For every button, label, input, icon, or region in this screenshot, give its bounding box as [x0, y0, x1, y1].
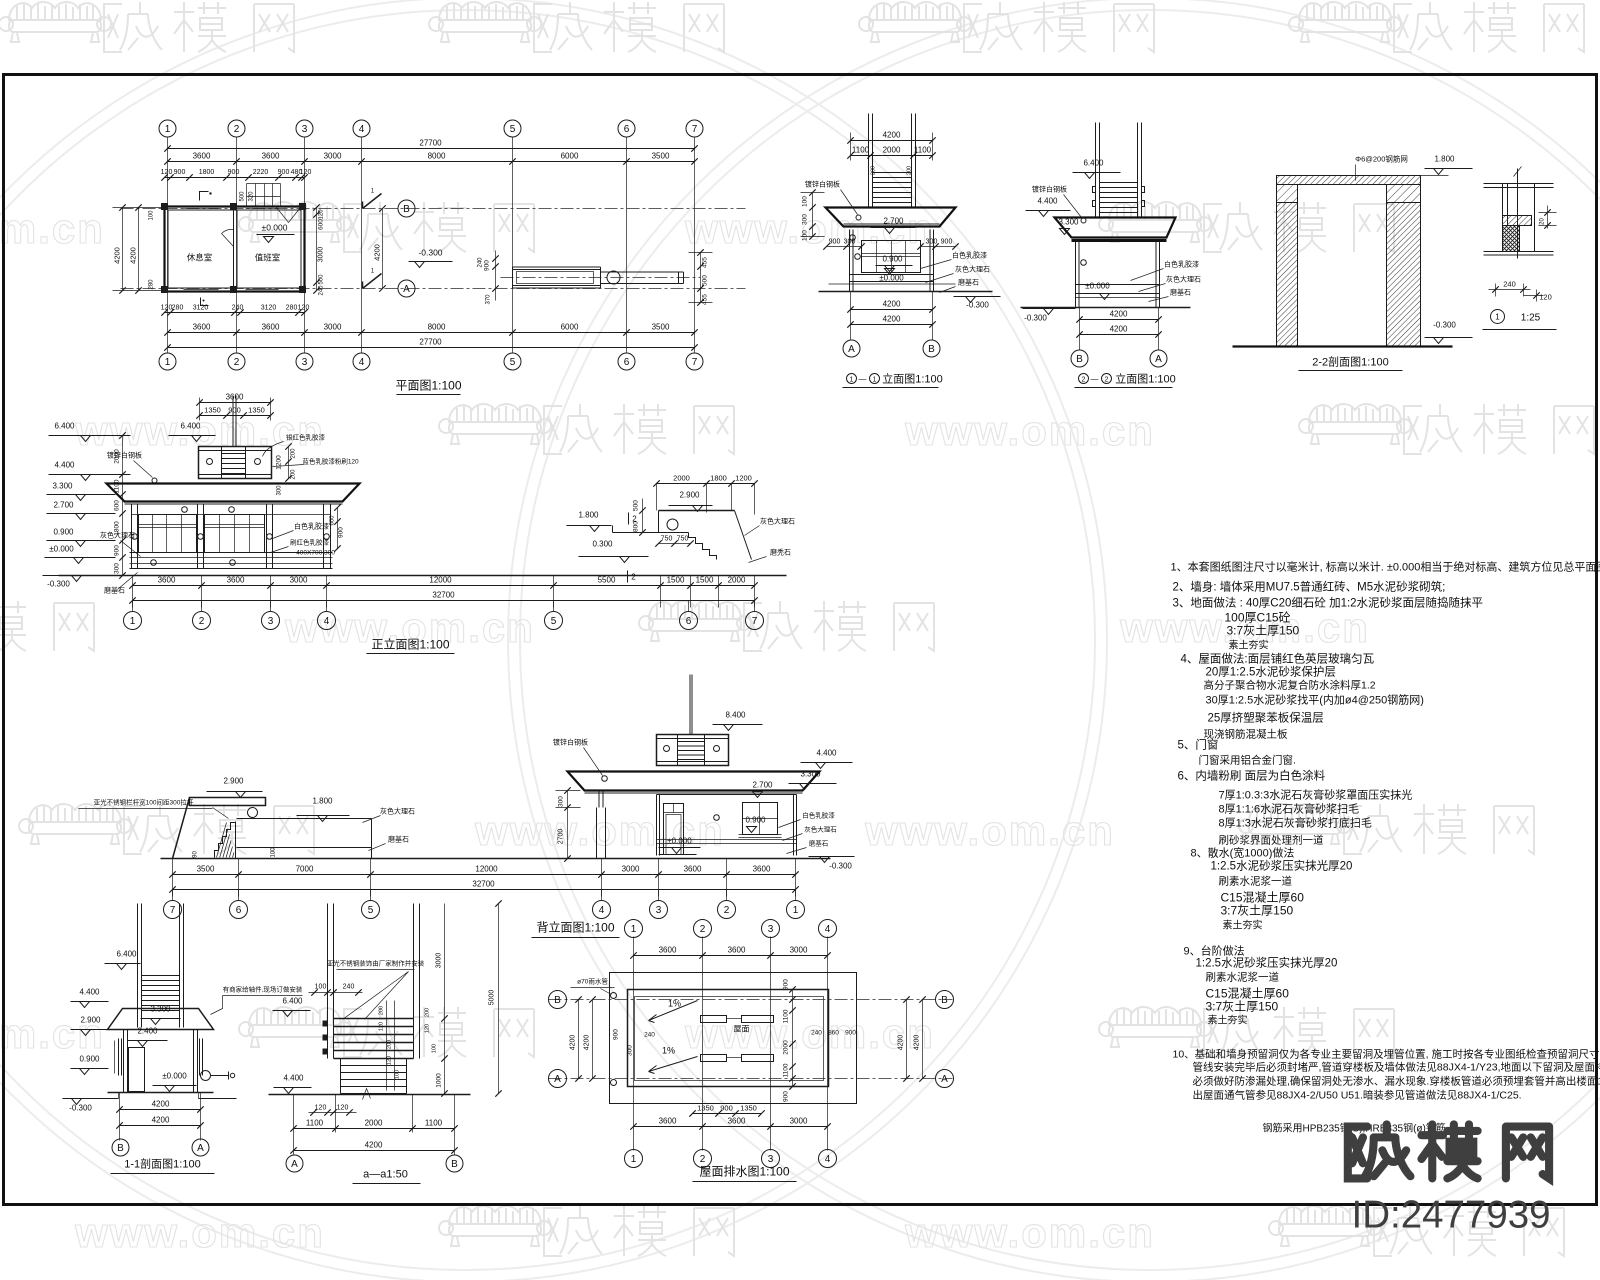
svg-text:1: 1 — [165, 124, 171, 135]
svg-text:白色乳胶漆: 白色乳胶漆 — [952, 251, 987, 260]
svg-text:2.900: 2.900 — [679, 491, 700, 500]
svg-text:3000: 3000 — [324, 323, 342, 332]
svg-text:白色乳胶漆: 白色乳胶漆 — [1164, 260, 1199, 269]
svg-text:1: 1 — [631, 924, 637, 935]
g5 grid bubble A — [1150, 350, 1167, 367]
svg-text:4.400: 4.400 — [54, 461, 75, 470]
svg-text:0.900: 0.900 — [79, 1055, 100, 1064]
svg-text:1.800: 1.800 — [1434, 155, 1455, 164]
barrier centerline — [501, 277, 701, 279]
svg-text:90: 90 — [193, 851, 199, 858]
svg-text:A: A — [403, 284, 410, 295]
svg-text:高分子聚合物水泥复合防水涂料厚1.2: 高分子聚合物水泥复合防水涂料厚1.2 — [1204, 679, 1376, 692]
svg-text:600: 600 — [318, 219, 325, 230]
svg-text:6.400: 6.400 — [54, 422, 75, 431]
svg-text:280: 280 — [286, 305, 298, 312]
be left pillar — [598, 791, 600, 808]
svg-text:4200: 4200 — [898, 1035, 905, 1051]
svg-text:1000: 1000 — [436, 1073, 443, 1088]
svg-text:屋面: 屋面 — [734, 1025, 750, 1034]
floor plan 平面图 — [113, 120, 746, 395]
front elevation 正立面图 — [43, 393, 796, 654]
gd mini dims — [386, 1001, 388, 1091]
svg-text:±0.000: ±0.000 — [1085, 282, 1110, 291]
g5 canopy roof — [1055, 218, 1176, 238]
g4 window — [862, 241, 921, 273]
big dark watermark 欧模网 — [1348, 1124, 1549, 1178]
svg-text:3600: 3600 — [262, 152, 280, 161]
g5 dims 4200 — [1079, 308, 1081, 351]
svg-text:25厚挤塑聚苯板保温层: 25厚挤塑聚苯板保温层 — [1208, 711, 1324, 725]
svg-text:4200: 4200 — [373, 244, 382, 261]
svg-text:600: 600 — [330, 515, 336, 526]
gd dim 4200 — [294, 1150, 455, 1152]
gate elevation 2-2 — [1021, 123, 1202, 388]
svg-text:4.400: 4.400 — [283, 1074, 304, 1083]
svg-text:6: 6 — [686, 616, 692, 627]
svg-text:7: 7 — [752, 616, 758, 627]
svg-text:120: 120 — [425, 1024, 431, 1033]
svg-text:2: 2 — [700, 1154, 706, 1165]
svg-text:3000: 3000 — [790, 946, 808, 955]
svg-text:6.400: 6.400 — [116, 950, 137, 959]
g5 gate grille — [1100, 182, 1138, 184]
be slope slab left — [190, 798, 266, 806]
svg-text:www.om.cn: www.om.cn — [74, 1209, 325, 1256]
svg-text:200: 200 — [291, 469, 297, 480]
svg-text:280: 280 — [172, 305, 184, 312]
rp far right dim chains — [906, 1000, 908, 1079]
svg-text:3600: 3600 — [659, 1117, 677, 1126]
be level -0.300 — [809, 856, 855, 858]
svg-text:1500: 1500 — [696, 576, 714, 585]
svg-text:240: 240 — [232, 305, 244, 312]
rp inner face rect — [635, 997, 824, 1081]
section 2-2 剖面图 — [1233, 154, 1473, 371]
svg-text:4200: 4200 — [1110, 325, 1128, 334]
svg-text:出屋面通气管参见88JX4-2/U50 U51.暗装参见管道: 出屋面通气管参见88JX4-2/U50 U51.暗装参见管道做法见88JX4-1… — [1193, 1089, 1522, 1102]
svg-text:立面图1:100: 立面图1:100 — [1115, 372, 1176, 386]
svg-text:素土夯实: 素土夯实 — [1229, 639, 1269, 652]
svg-text:3600: 3600 — [262, 323, 280, 332]
g4 canopy roof — [826, 208, 956, 227]
svg-text:B: B — [554, 995, 561, 1006]
svg-text:4: 4 — [359, 124, 365, 135]
rp bottom small dims — [693, 1113, 762, 1115]
svg-text:3500: 3500 — [652, 323, 670, 332]
svg-text:860: 860 — [828, 1030, 839, 1037]
svg-text:455: 455 — [702, 294, 709, 305]
svg-text:1350: 1350 — [248, 406, 265, 415]
roof drainage plan 屋面排水图 — [549, 920, 954, 1182]
gd grid bubble B — [446, 1155, 463, 1172]
svg-text:3: 3 — [302, 124, 308, 135]
gate leaf detail a-a 1:50 — [269, 900, 502, 1183]
section cut marks — [363, 194, 382, 209]
plan door swing top right — [277, 208, 301, 223]
svg-text:-0.300: -0.300 — [1433, 321, 1456, 330]
rp left dim chains — [578, 1000, 580, 1079]
be bottom dims — [172, 859, 174, 897]
svg-text:2: 2 — [199, 616, 205, 627]
svg-text:900: 900 — [338, 527, 345, 538]
svg-text:1、本套图纸图注尺寸以毫米计, 标高以米计. ±0.000相: 1、本套图纸图注尺寸以毫米计, 标高以米计. ±0.000相当于绝对标高、建筑方… — [1171, 560, 1600, 574]
svg-text:8000: 8000 — [428, 152, 446, 161]
svg-text:1:25: 1:25 — [1521, 313, 1541, 324]
svg-text:亚光不锈钢装饰由厂家制作并安装: 亚光不锈钢装饰由厂家制作并安装 — [327, 959, 425, 968]
fe flag pole — [232, 396, 234, 447]
svg-text:5: 5 — [368, 905, 374, 916]
plan bottom detail dims — [165, 312, 305, 314]
svg-text:3000: 3000 — [790, 1117, 808, 1126]
g4 left vertical dims — [812, 193, 814, 237]
s11 side window frames — [118, 1039, 120, 1076]
svg-text:±0.000: ±0.000 — [162, 1072, 187, 1081]
svg-text:5500: 5500 — [598, 576, 616, 585]
plan bay dims bottom — [168, 332, 695, 334]
svg-text:a—a1:50: a—a1:50 — [363, 1169, 408, 1181]
svg-text:120: 120 — [298, 305, 310, 312]
g4 base lines — [850, 274, 934, 276]
svg-text:4200: 4200 — [914, 1035, 921, 1051]
svg-text:300: 300 — [802, 214, 809, 225]
fe ball ornament — [667, 519, 678, 530]
svg-text:1100: 1100 — [852, 146, 870, 155]
plan bay dims top — [168, 161, 695, 163]
fe dims 750 750 — [659, 543, 691, 545]
svg-text:4200: 4200 — [883, 300, 901, 309]
svg-text:4200: 4200 — [365, 1141, 383, 1150]
svg-text:100: 100 — [149, 210, 155, 221]
svg-text:±0.000: ±0.000 — [667, 837, 692, 846]
barrier left dims — [495, 251, 497, 301]
svg-text:亚光不锈钢栏杆宽100间距300拉杆: 亚光不锈钢栏杆宽100间距300拉杆 — [94, 798, 194, 807]
d1 top lines — [1484, 183, 1554, 185]
svg-text:1350: 1350 — [697, 1104, 714, 1113]
svg-text:灰色大理石: 灰色大理石 — [955, 265, 990, 274]
fe overall 32700 — [133, 600, 755, 602]
plan grid bubbles bottom — [159, 353, 176, 370]
be flag pole — [689, 675, 691, 735]
rp centerline B — [549, 999, 953, 1001]
svg-text:10、基础和墙身预留洞仅为各专业主要留洞及埋管位置, 施工时: 10、基础和墙身预留洞仅为各专业主要留洞及埋管位置, 施工时按各专业图纸检查预留… — [1173, 1048, 1600, 1061]
svg-text:3: 3 — [656, 905, 662, 916]
g5 title — [1079, 374, 1089, 384]
svg-text:300: 300 — [114, 563, 121, 574]
plan overall dim bottom — [168, 347, 695, 349]
svg-text:A: A — [848, 344, 855, 355]
svg-text:3600: 3600 — [193, 152, 211, 161]
be door — [664, 804, 684, 855]
svg-text:5000: 5000 — [489, 990, 496, 1006]
plan interior vertical dim 4200 — [382, 209, 384, 289]
svg-text:3.300: 3.300 — [1058, 218, 1079, 227]
svg-text:6: 6 — [236, 905, 242, 916]
svg-text:磨基石: 磨基石 — [104, 586, 125, 595]
svg-text:3: 3 — [768, 924, 774, 935]
g4 dims below 4200 — [850, 292, 852, 341]
g4 ground line — [819, 291, 993, 293]
svg-text:750: 750 — [661, 536, 673, 543]
svg-text:3000: 3000 — [622, 865, 640, 874]
svg-text:刷红色乳胶漆: 刷红色乳胶漆 — [290, 538, 330, 547]
svg-text:600: 600 — [114, 500, 121, 511]
s11 gate posts — [137, 904, 139, 1028]
plan overall dim 27700 top — [168, 148, 695, 150]
svg-text:B: B — [928, 344, 935, 355]
svg-text:C15混凝土厚60: C15混凝土厚60 — [1206, 986, 1290, 1001]
s11 grid bubble B — [112, 1139, 129, 1156]
svg-text:3600: 3600 — [684, 865, 702, 874]
g4 grid bubble A — [843, 340, 860, 357]
svg-text:900: 900 — [783, 979, 790, 990]
svg-text:—: — — [859, 375, 867, 384]
svg-text:900: 900 — [278, 169, 290, 176]
plan partition wall — [233, 210, 235, 289]
svg-text:240: 240 — [644, 1032, 655, 1039]
svg-text:灰色大理石: 灰色大理石 — [380, 807, 415, 816]
svg-text:6: 6 — [624, 357, 630, 368]
d1 bottom dims 240 120 — [1495, 284, 1497, 297]
svg-text:12000: 12000 — [429, 576, 452, 585]
gd posts — [327, 904, 329, 1059]
svg-text:7000: 7000 — [296, 865, 314, 874]
fe fence mid rail — [613, 532, 689, 534]
svg-text:A: A — [941, 1074, 948, 1085]
svg-text:4200: 4200 — [1110, 310, 1128, 319]
svg-text:900: 900 — [174, 169, 186, 176]
svg-text:3600: 3600 — [227, 576, 245, 585]
svg-text:1100: 1100 — [783, 1063, 790, 1077]
svg-text:500: 500 — [319, 274, 325, 285]
fe fence top rail right — [659, 510, 735, 512]
g4 dims 1100 2000 1100 — [851, 155, 933, 157]
g5 gate posts — [1095, 123, 1097, 218]
be door step — [659, 854, 697, 856]
2-2 right wall — [1387, 185, 1421, 203]
svg-text:立面图1:100: 立面图1:100 — [882, 372, 943, 386]
grid row A centerline — [121, 288, 746, 290]
svg-text:-0.300: -0.300 — [69, 1104, 92, 1113]
svg-text:1500: 1500 — [667, 576, 685, 585]
svg-text:0.900: 0.900 — [745, 816, 766, 825]
svg-text:镀锌白钢板: 镀锌白钢板 — [553, 738, 588, 747]
fe deco circles — [182, 507, 188, 513]
detail 1 at 1:25 — [1483, 167, 1557, 330]
svg-text:灰色大理石: 灰色大理石 — [804, 825, 837, 834]
svg-text:-0.300: -0.300 — [418, 248, 442, 258]
d1 dark wall block — [1503, 226, 1520, 252]
be grid bubbles — [172, 890, 174, 901]
svg-text:500: 500 — [633, 500, 640, 511]
svg-text:2: 2 — [724, 905, 730, 916]
svg-text:27700: 27700 — [419, 338, 442, 347]
svg-text:120: 120 — [315, 1105, 327, 1112]
svg-text:800: 800 — [633, 521, 640, 532]
svg-text:900: 900 — [941, 239, 953, 246]
svg-text:6000: 6000 — [561, 323, 579, 332]
svg-text:2: 2 — [1082, 377, 1086, 384]
rp grid lines — [633, 937, 635, 1151]
fe ground line — [59, 575, 787, 577]
section 1-1 剖面图 — [63, 904, 303, 1174]
s11 body walls — [123, 1030, 125, 1093]
svg-text:4200: 4200 — [883, 315, 901, 324]
svg-text:B: B — [403, 204, 410, 215]
svg-text:3: 3 — [302, 357, 308, 368]
g4 deco circles — [850, 235, 856, 241]
svg-text:1350: 1350 — [204, 406, 221, 415]
svg-text:200: 200 — [871, 166, 877, 175]
g5 base lines — [1076, 284, 1160, 286]
svg-text:磨秃石: 磨秃石 — [770, 548, 791, 557]
svg-text:3000: 3000 — [436, 953, 443, 969]
s11 grid bubble A — [192, 1139, 209, 1156]
s11 dims 4200 — [119, 1093, 121, 1141]
svg-text:3.300: 3.300 — [52, 482, 73, 491]
d1 right mini dim — [1547, 206, 1549, 229]
svg-text:1.800: 1.800 — [312, 797, 333, 806]
svg-text:3: 3 — [768, 1154, 774, 1165]
svg-text:1: 1 — [130, 616, 136, 627]
plan windows top wall — [184, 208, 219, 210]
svg-text:100: 100 — [395, 1070, 401, 1079]
svg-text:120: 120 — [1539, 293, 1552, 302]
svg-text:8.400: 8.400 — [725, 711, 746, 720]
svg-text:7: 7 — [692, 357, 698, 368]
svg-text:2: 2 — [234, 124, 240, 135]
gd hinge blocks — [323, 1021, 328, 1027]
rp slope arrow lower — [649, 1057, 698, 1074]
svg-text:3000: 3000 — [318, 247, 325, 263]
fe frieze line — [132, 514, 331, 516]
svg-text:1100: 1100 — [914, 146, 932, 155]
svg-text:±0.000: ±0.000 — [262, 223, 288, 233]
svg-text:ø70雨水管: ø70雨水管 — [577, 977, 608, 986]
gd ground — [269, 1094, 471, 1096]
svg-text:900: 900 — [114, 545, 121, 556]
svg-text:240: 240 — [478, 257, 484, 268]
svg-text:1800: 1800 — [710, 474, 727, 483]
svg-text:300: 300 — [844, 239, 856, 246]
g4 body walls — [849, 230, 851, 292]
svg-text:320: 320 — [249, 191, 255, 202]
svg-text:120: 120 — [379, 1022, 385, 1031]
svg-text:900: 900 — [228, 169, 240, 176]
svg-text:银红色乳胶漆: 银红色乳胶漆 — [286, 433, 326, 442]
svg-text:3600: 3600 — [659, 946, 677, 955]
svg-text:-0.300: -0.300 — [47, 580, 70, 589]
plan columns — [161, 203, 168, 210]
svg-text:镀锌白钢板: 镀锌白钢板 — [1032, 185, 1067, 194]
svg-text:3600: 3600 — [728, 946, 746, 955]
g4 gate grille — [873, 172, 912, 174]
fe fence dims 2000 1800 1200 — [657, 483, 755, 485]
svg-text:2000: 2000 — [883, 146, 901, 155]
rp centerline A — [549, 1078, 953, 1080]
d1 verticals — [1502, 184, 1504, 226]
svg-text:27700: 27700 — [419, 139, 442, 148]
svg-text:120: 120 — [300, 169, 312, 176]
svg-text:3600: 3600 — [193, 323, 211, 332]
plan grid bubbles top — [159, 120, 176, 137]
be steps hatched — [215, 823, 236, 858]
svg-text:1: 1 — [850, 377, 854, 384]
svg-text:1: 1 — [631, 1154, 637, 1165]
svg-text:磨基石: 磨基石 — [1170, 288, 1191, 297]
svg-text:B: B — [451, 1159, 458, 1170]
fe slope mark 2 upper — [628, 513, 630, 525]
rp bubbles B A left — [549, 991, 567, 1009]
svg-text:1100: 1100 — [425, 1119, 443, 1128]
rp bottom dims — [634, 1126, 828, 1128]
svg-text:455: 455 — [702, 257, 709, 268]
svg-text:1200: 1200 — [735, 474, 752, 483]
2-2 left wall — [1277, 185, 1298, 203]
svg-text:4200: 4200 — [584, 1035, 591, 1051]
svg-text:2000: 2000 — [728, 576, 746, 585]
fe tower dims 1350 900 1350 — [200, 415, 271, 417]
rp outer eave rect — [610, 973, 857, 1104]
svg-text:20: 20 — [1540, 218, 1546, 225]
svg-text:2: 2 — [700, 924, 706, 935]
be window — [743, 803, 778, 835]
svg-text:2: 2 — [1105, 377, 1109, 384]
g4 title — [847, 374, 857, 384]
svg-text:100: 100 — [432, 1044, 438, 1053]
svg-text:4200: 4200 — [152, 1116, 170, 1125]
be body walls — [656, 795, 658, 856]
svg-text:370: 370 — [486, 294, 492, 305]
svg-text:4200: 4200 — [129, 247, 138, 264]
svg-text:3500: 3500 — [197, 865, 215, 874]
svg-text:1%: 1% — [662, 1046, 675, 1056]
svg-text:900: 900 — [613, 1029, 620, 1040]
plan grid lines — [167, 137, 169, 354]
svg-text:www.om.cn: www.om.cn — [0, 205, 105, 252]
svg-text:灰色大理石: 灰色大理石 — [760, 517, 795, 526]
svg-text:值班室: 值班室 — [255, 253, 281, 263]
svg-text:2700: 2700 — [558, 829, 565, 845]
gd dims 1100 2000 1100 — [293, 1095, 295, 1156]
svg-text:300: 300 — [277, 485, 283, 496]
svg-text:蓝色乳胶漆粉刷120: 蓝色乳胶漆粉刷120 — [302, 457, 359, 466]
svg-text:1800: 1800 — [199, 169, 215, 176]
watermark circles — [0, 10, 1095, 1270]
svg-text:A: A — [554, 1074, 561, 1085]
svg-text:C15混凝土厚60: C15混凝土厚60 — [1221, 890, 1305, 905]
svg-text:6、内墙粉刷 面层为白色涂料: 6、内墙粉刷 面层为白色涂料 — [1178, 769, 1326, 783]
barrier arm extension — [601, 271, 684, 273]
svg-text:6: 6 — [624, 124, 630, 135]
2-2 top slab hatched — [1277, 176, 1421, 185]
svg-text:900: 900 — [845, 1030, 856, 1037]
barrier pivot circle — [607, 271, 620, 284]
svg-text:900: 900 — [228, 406, 241, 415]
s11 base — [108, 1092, 214, 1094]
svg-text:7厚1:0.3:3水泥石灰膏砂浆罩面压实抹光: 7厚1:0.3:3水泥石灰膏砂浆罩面压实抹光 — [1219, 788, 1413, 802]
svg-text:1100: 1100 — [306, 1119, 324, 1128]
g5 ground — [1021, 307, 1191, 309]
plan outer walls — [165, 207, 305, 292]
svg-text:2.900: 2.900 — [80, 1016, 101, 1025]
svg-text:6000: 6000 — [561, 152, 579, 161]
svg-text:3: 3 — [268, 616, 274, 627]
g4 gate posts — [868, 114, 870, 208]
svg-text:2.700: 2.700 — [53, 501, 74, 510]
svg-text:背立面图1:100: 背立面图1:100 — [536, 920, 614, 935]
svg-text:-0.300: -0.300 — [829, 862, 852, 871]
